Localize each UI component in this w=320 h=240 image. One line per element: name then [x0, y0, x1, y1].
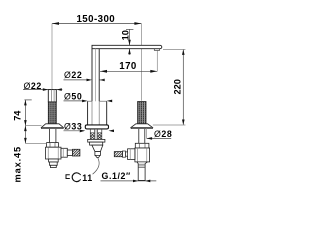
leader Ø33 — [64, 130, 115, 133]
left valve threaded rod — [48, 102, 56, 124]
left valve body — [46, 147, 62, 159]
column threaded shank — [90, 129, 102, 139]
extension line rod edge (for Ø28) — [146, 129, 148, 139]
aerator under spout tip — [154, 49, 159, 51]
svg-text:max.45: max.45 — [12, 146, 22, 183]
extension line right (to right valve) — [140, 24, 142, 101]
dimension 220 text (rotated) — [172, 79, 182, 94]
right valve inlet nipple — [128, 149, 135, 160]
dimension 150-300 line — [52, 22, 141, 25]
leader Ø22 column — [64, 79, 105, 82]
extension line from aerator — [156, 50, 158, 71]
left valve cap — [48, 90, 56, 102]
extension line flange (74 bottom / max45 top) — [25, 125, 41, 127]
right valve shank below deck — [139, 129, 145, 144]
right valve hose rings — [122, 151, 127, 157]
left valve bottom connector — [49, 159, 59, 168]
left valve outlet nipple — [61, 148, 67, 157]
svg-text:Ø50: Ø50 — [64, 92, 82, 102]
svg-text:G.1/2″: G.1/2″ — [102, 171, 132, 181]
leader Ø22 left — [23, 88, 62, 91]
column tailpiece tip — [95, 155, 100, 157]
dimension max.45 line — [24, 126, 27, 144]
right valve fixing nut — [135, 143, 149, 148]
column washer — [88, 139, 105, 142]
dimension 220 line — [182, 49, 185, 125]
label Ø28 — [154, 129, 172, 139]
svg-text:220: 220 — [172, 79, 182, 94]
spout column riser — [92, 49, 99, 101]
right valve body — [135, 148, 150, 162]
dimension 170 text — [119, 61, 137, 72]
svg-text:10: 10 — [120, 30, 130, 40]
spout bar — [92, 45, 162, 48]
label Ø22 column — [64, 70, 82, 80]
label Ø22 left — [24, 81, 42, 91]
column tailpiece stub — [95, 152, 101, 156]
label Ø33 — [64, 121, 82, 131]
right valve bottom tube — [137, 162, 148, 181]
note 11 — [82, 173, 92, 183]
left valve fixing nut — [47, 143, 59, 148]
svg-text:11: 11 — [82, 173, 92, 183]
dimension 74 line — [24, 100, 32, 126]
svg-text:74: 74 — [13, 110, 23, 121]
right valve hose end — [114, 152, 122, 157]
column base plate — [85, 125, 108, 129]
svg-text:Ø28: Ø28 — [154, 129, 172, 139]
left valve flange — [42, 124, 64, 129]
column fixing nut — [90, 142, 103, 145]
label Ø50 — [64, 92, 82, 102]
leader curve to wrench note — [93, 158, 100, 175]
dimension 150-300 text — [76, 14, 115, 25]
dimension max.45 text (rotated) — [12, 146, 22, 183]
left valve hose ring — [67, 150, 72, 156]
dimension 170 line — [100, 70, 157, 73]
extension line from spout tip — [163, 48, 185, 50]
svg-text:170: 170 — [119, 61, 137, 72]
label G.1/2 — [102, 171, 132, 181]
leader Ø50 — [64, 100, 113, 103]
extension line nut top (max45 bottom) — [25, 142, 46, 144]
dimension 10 lines and arrows — [126, 29, 133, 54]
column tailpiece cone — [92, 145, 103, 152]
leader Ø28 — [147, 137, 172, 140]
left valve shank below deck — [49, 129, 56, 143]
left valve hose end — [73, 149, 80, 156]
wrench icon — [66, 173, 81, 182]
dimension 10 text (rotated) — [120, 30, 130, 40]
svg-text:Ø22: Ø22 — [64, 70, 82, 80]
leader G.1/2 — [101, 180, 157, 183]
right valve threaded rod — [138, 102, 146, 124]
right valve flange — [131, 124, 152, 129]
svg-text:Ø33: Ø33 — [64, 121, 82, 131]
extension line left (to left valve) — [51, 24, 53, 90]
dimension 74 text (rotated) — [13, 110, 23, 121]
column sleeve — [88, 101, 107, 125]
extension line from right valve flange — [153, 124, 186, 126]
